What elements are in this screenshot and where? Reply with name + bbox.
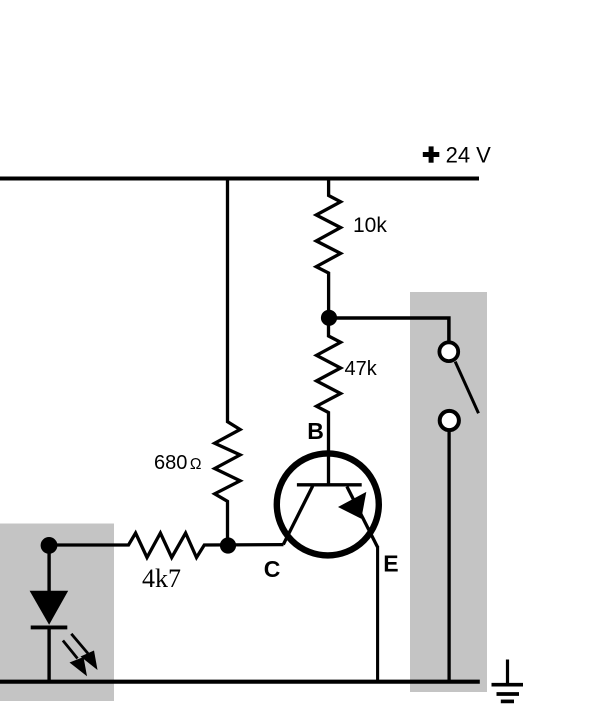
svg-text:E: E — [383, 551, 398, 577]
svg-text:10k: 10k — [353, 214, 387, 237]
svg-text:47k: 47k — [345, 358, 378, 380]
svg-text:B: B — [307, 418, 324, 444]
svg-text:680Ω: 680Ω — [154, 452, 201, 474]
svg-text:C: C — [264, 556, 281, 582]
svg-text:24 V: 24 V — [446, 142, 492, 167]
svg-text:4k7: 4k7 — [142, 564, 181, 593]
